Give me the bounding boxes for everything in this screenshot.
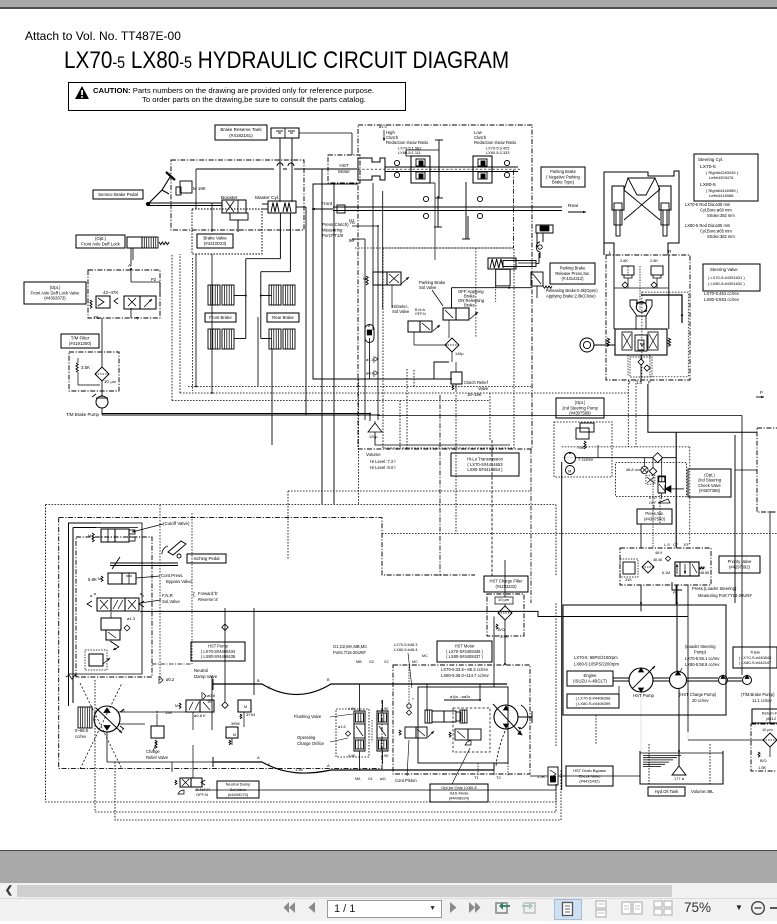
svg-text:Master Cyl.: Master Cyl.: [255, 195, 279, 201]
port labels T LS P: [628, 380, 651, 385]
wire: brake pump output: [102, 408, 380, 415]
wire: H1 port line: [350, 220, 379, 420]
svg-text:10: 10: [104, 379, 109, 384]
label: B N=b OFF:N: [415, 308, 426, 316]
node: H1: [349, 218, 355, 223]
label: Priority Valve (#4297692): [719, 556, 760, 573]
svg-text:L.S: L.S: [664, 542, 670, 547]
label: HST Pump: [633, 693, 655, 698]
valve: charge relief 15K: [151, 710, 172, 748]
toolbar: next view icon (disabled): [520, 899, 538, 921]
pump: triple gear pump tail: [743, 675, 752, 685]
svg-text:Cont.Press.: Cont.Press.: [161, 573, 183, 578]
svg-text:(#4409270): (#4409270): [228, 792, 249, 797]
valve: S&S mode spool: [449, 729, 481, 745]
bus: dotted right verticals: [649, 744, 710, 784]
toolbar: zoom dropdown arrow: [735, 903, 743, 912]
svg-text:b: b: [142, 593, 144, 598]
svg-text:177 ø: 177 ø: [674, 776, 685, 781]
svg-text:Hyd.Oil Tank: Hyd.Oil Tank: [655, 789, 680, 794]
port: P2: [151, 277, 157, 282]
svg-text:6.1M: 6.1M: [662, 571, 670, 575]
svg-text:{: {: [193, 592, 195, 598]
label: LX80-5 rod specs: [685, 223, 735, 239]
label: Press.Sw. (#4307590): [637, 509, 672, 524]
valve: servo feedback: [110, 641, 119, 650]
label: Service Brake Pedal: [93, 190, 143, 199]
bus: dash-dot vertical x531: [530, 449, 532, 603]
svg-text:HST: HST: [339, 163, 348, 168]
wire: hose taps into motor: [427, 684, 480, 711]
valve: booster: [222, 200, 248, 220]
viewer top gray bar: [0, 0, 777, 9]
container: T/M filter (dash-dot): [69, 352, 119, 391]
svg-text:(#4307590): (#4307590): [644, 516, 666, 521]
valve: hi-selec sol valve: [408, 321, 440, 345]
valve: parking brake sol valve: [443, 308, 478, 332]
svg-text:10 µm: 10 µm: [498, 597, 510, 602]
container: 2nd check valve (dotted): [616, 463, 687, 497]
svg-text:70K: 70K: [577, 445, 584, 450]
wire: pedal push rod: [148, 203, 222, 206]
svg-text:B: B: [327, 677, 330, 682]
svg-text:LX70-5: 88PS/2100rpm: LX70-5: 88PS/2100rpm: [574, 655, 618, 660]
label: Neutral Damp Sol.Valve (#4409270): [217, 781, 259, 798]
wire: pump internal verticals: [152, 505, 254, 730]
label: (Opt.) 2nd Steering Check Valve (#4307368): [688, 469, 731, 497]
valve: cont press bypass: [98, 573, 136, 584]
mech: inching pedal: [162, 541, 186, 558]
svg-text:Cyl,Bore:ø60 mm: Cyl,Bore:ø60 mm: [700, 208, 732, 213]
svg-text:Measuring: Measuring: [322, 227, 343, 232]
brake: front left pack: [208, 285, 234, 305]
tank: fluid level hatch: [643, 756, 681, 767]
wire: brake vertical bus 1: [296, 207, 306, 413]
wire: P line to right box: [735, 435, 757, 603]
bus: dotted vertical x192: [192, 258, 194, 391]
svg-text:P: P: [673, 590, 676, 595]
label: LX70-5 rod specs: [685, 202, 735, 218]
pump: charge pump hatch block: [78, 707, 92, 728]
svg-text:LX70-5:33.5~ 86.3 cc/rev: LX70-5:33.5~ 86.3 cc/rev: [441, 667, 489, 672]
container: HST motor inner housing: [418, 687, 508, 763]
svg-text:OFF:N: OFF:N: [415, 312, 426, 316]
svg-text:Sol.Valve: Sol.Valve: [419, 285, 437, 290]
container: HST motor (dash-dot): [393, 665, 530, 774]
container: HST system (dotted outer): [46, 505, 557, 803]
svg-text:(#4210023): (#4210023): [204, 241, 227, 246]
svg-text:(#4253232): (#4253232): [496, 584, 518, 589]
label: T/M Brake Pump: [66, 412, 99, 417]
svg-text:LX80-5 Rod Dia:ø35 mm: LX80-5 Rod Dia:ø35 mm: [685, 223, 731, 228]
label: orifice ø1.0: [379, 124, 388, 141]
svg-text:T: T: [136, 316, 139, 321]
svg-text:P1: P1: [94, 315, 100, 320]
label: Releasing/Applying brake: [546, 288, 598, 298]
wire: steering valve drains: [628, 355, 650, 382]
svg-text:ø0.8: ø0.8: [207, 693, 216, 698]
valve: pump drain box: [85, 650, 110, 670]
label: (Cutoff Valve): [132, 521, 190, 533]
wire: TM brake pump long line: [102, 414, 370, 422]
wire: reserve tank to brake valve: [280, 138, 292, 202]
label: Rear Brake: [267, 313, 299, 322]
node: A: [128, 263, 132, 270]
scrollbar zone: [0, 883, 777, 921]
svg-text:M: M: [244, 705, 247, 709]
wire: parking brake pipe: [518, 262, 536, 264]
svg-text:1.5K: 1.5K: [758, 765, 767, 770]
svg-text:(#4307368): (#4307368): [699, 488, 721, 493]
valve: neutral damp mid: [226, 721, 240, 745]
svg-text:ø: ø: [368, 324, 370, 328]
label: Cont.Piston: [395, 740, 417, 783]
wire: suction to tank: [641, 689, 679, 766]
svg-text:Brake Type): Brake Type): [552, 180, 575, 185]
label: (Opt.) Front Axle Deff Lock: [76, 235, 125, 248]
svg-text:Reverse:'a': Reverse:'a': [198, 597, 218, 602]
wire: press sw link: [654, 492, 660, 523]
svg-text:T2: T2: [496, 775, 501, 780]
header note: [25, 29, 181, 43]
label: 5.8K: [88, 577, 97, 582]
scrollbar thumb: [17, 885, 672, 897]
wire: L0 port line: [350, 237, 365, 420]
label: Steering Valve part numbers: [703, 264, 760, 291]
wire: reserve tank breather: [299, 133, 352, 155]
bus: dotted return line C: [172, 401, 489, 448]
svg-text:Volume: Volume: [366, 452, 381, 457]
gear: countershaft line: [434, 196, 468, 239]
brake: rear left pack: [269, 285, 295, 305]
label: Low Clutch Reduction Gear Ratio: [474, 130, 517, 155]
svg-text:P: P: [760, 390, 763, 395]
label: (Opt.) Front Axle Deff Lock Valve (#4302673): [24, 282, 86, 304]
svg-text:G1: G1: [368, 777, 373, 781]
svg-text:Inching Pedal: Inching Pedal: [193, 556, 219, 561]
svg-text:LX70-5:56.1 cc/rev: LX70-5:56.1 cc/rev: [685, 656, 720, 661]
label: High Clutch Reduction Gear Ratio: [386, 130, 429, 155]
svg-text:Stroke:382 mm: Stroke:382 mm: [707, 234, 735, 239]
svg-text:(#4415432): (#4415432): [579, 778, 600, 783]
cylinder: servo piston: [101, 612, 121, 640]
svg-text:( LX80-5:#4391632 ): ( LX80-5:#4391632 ): [708, 281, 745, 286]
container: Hi-Lo transmission (dash-dot): [358, 125, 532, 449]
pump: gerotor metering unit: [630, 300, 652, 316]
pump: HST variable pump: [94, 706, 125, 733]
svg-text:1.5K: 1.5K: [295, 767, 304, 772]
svg-text:4.9K: 4.9K: [348, 707, 356, 711]
svg-text:Press.(Loader Steering): Press.(Loader Steering): [692, 586, 737, 591]
label: orifice ø1.6: [338, 725, 351, 736]
toolbar: continuous facing layout icon: [650, 899, 678, 923]
valve: clutch relief 16-18K: [451, 362, 489, 397]
wire: rear brake link: [260, 272, 291, 339]
svg-text:µm: µm: [111, 380, 116, 384]
svg-text:Front Axle Deff Lock: Front Axle Deff Lock: [81, 242, 120, 247]
svg-text:Relief Valve: Relief Valve: [146, 755, 169, 760]
label: HST Motor part numbers: [437, 641, 492, 662]
port: T1 T2: [474, 763, 501, 780]
port: R: [668, 249, 671, 254]
valve: neutral damp right: [238, 700, 256, 719]
svg-text:(Opt.): (Opt.): [95, 236, 107, 241]
label: orifice marks: [366, 356, 378, 377]
svg-text:B/O: B/O: [498, 628, 505, 632]
svg-text:LX80-5:1.111: LX80-5:1.111: [398, 150, 421, 155]
svg-text:LX80-5:553 cc/rev: LX80-5:553 cc/rev: [704, 297, 740, 302]
viewer bottom gray bar: [0, 850, 777, 884]
svg-text:T1: T1: [474, 775, 479, 780]
svg-text:Volume:49L: Volume:49L: [691, 789, 714, 794]
mech: steering cross linkage: [624, 178, 660, 220]
svg-text:Rear Brake: Rear Brake: [272, 315, 294, 320]
svg-text:A: A: [327, 763, 330, 768]
shaft: front output flange: [337, 205, 358, 213]
valve: MC check: [406, 664, 414, 715]
svg-text:Rear: Rear: [568, 203, 579, 209]
strainer: transmission sump: [368, 423, 382, 439]
label: T/M Filter (#4191300): [61, 334, 99, 348]
svg-text:3.5K: 3.5K: [81, 365, 90, 370]
filter: T/M suction filter: [95, 367, 116, 384]
bus: dotted horizontal y533: [382, 533, 777, 535]
svg-text:LS: LS: [637, 380, 642, 385]
valve: 2nd pump relief 70K: [576, 423, 594, 450]
wire: charge pump lines: [107, 711, 213, 762]
label: Hi-Lo Transmission part numbers: [451, 453, 519, 476]
svg-text:MC: MC: [422, 654, 428, 658]
svg-text:149µ: 149µ: [455, 352, 464, 356]
label: Flushing Valve: [294, 714, 353, 719]
svg-text:M: M: [88, 534, 91, 538]
svg-text:42~47K: 42~47K: [103, 290, 118, 295]
svg-text:T/M Filter: T/M Filter: [71, 336, 90, 341]
label: 42~47K: [103, 290, 118, 295]
svg-text:Charge Orifice: Charge Orifice: [297, 741, 325, 746]
filter: check diamond on line: [653, 453, 663, 463]
container: bottom dotted box outer: [95, 505, 556, 813]
svg-text:2.8K: 2.8K: [650, 258, 658, 263]
toolbar: single page layout (selected): [554, 899, 582, 920]
cylinder: parking brake release: [488, 253, 539, 269]
svg-text:L0: L0: [350, 237, 355, 242]
svg-text:Releasing Brake:0.5k(Open): Releasing Brake:0.5k(Open): [546, 288, 598, 293]
svg-text:( LX80-S#4408437 ): ( LX80-S#4408437 ): [446, 654, 484, 659]
svg-text:M: M: [98, 577, 101, 581]
svg-text:MA: MA: [355, 777, 361, 781]
caution box: [68, 82, 406, 112]
gear: high gear mesh line: [435, 140, 443, 198]
toolbar: next page button: [448, 899, 460, 921]
svg-text:(#412: (#412: [766, 716, 777, 721]
svg-text:(#4182161): (#4182161): [229, 133, 253, 138]
node junction dots: [195, 386, 680, 752]
svg-text:(Opt.): (Opt.): [575, 400, 586, 405]
svg-text:(Loader Steering: (Loader Steering: [685, 644, 716, 649]
valve: flushing spool right: [377, 707, 389, 758]
svg-text:Sol,Valve: Sol,Valve: [162, 599, 180, 604]
label: Charge Relief Valve: [146, 742, 169, 760]
label: Press Loader Steering: [692, 586, 752, 598]
svg-text:R: R: [668, 249, 671, 254]
svg-text:48.9: 48.9: [655, 551, 662, 555]
svg-text:×: ×: [412, 697, 414, 701]
wire: pump work lines vertical pair: [69, 523, 102, 706]
svg-text:Steering Cyl.: Steering Cyl.: [698, 157, 723, 162]
toolbar: zoom out button: [750, 900, 767, 922]
toolbar: zoom slider start: [770, 907, 777, 909]
svg-text:P: P: [648, 380, 651, 385]
label: Opt.for Only LX80-5 S&S Mode (#4408924): [430, 748, 488, 802]
caution text: [93, 86, 374, 105]
svg-text:LX80-5:105PS/2200rpm: LX80-5:105PS/2200rpm: [574, 662, 619, 667]
label: HST Motor (pipe ref): [328, 155, 360, 183]
svg-text:M: M: [363, 277, 366, 281]
svg-text:5.8K: 5.8K: [88, 577, 97, 582]
label: 0~69.8 cc/rev: [75, 728, 89, 739]
svg-text:ø1.6: ø1.6: [338, 725, 346, 729]
svg-text:Port:PT1/8: Port:PT1/8: [322, 233, 344, 238]
valve: motor spool chain: [425, 695, 481, 723]
svg-text:Cyl,Bore:ø65 mm: Cyl,Bore:ø65 mm: [700, 229, 732, 234]
toolbar: zoom percent: [684, 900, 711, 915]
hose: HST loop top: [213, 677, 507, 695]
svg-text:Brake Reserve Tank: Brake Reserve Tank: [220, 127, 262, 132]
svg-text:EF: EF: [684, 542, 690, 547]
label: Front Brake: [205, 313, 236, 322]
wire: filter to pump: [101, 318, 103, 396]
wire: HST supply verticals: [322, 169, 334, 504]
container: brake valve assembly (dash-dot): [171, 160, 304, 230]
svg-text:Operating: Operating: [297, 735, 316, 740]
svg-text:ø1.3: ø1.3: [127, 616, 136, 621]
filter: clutch oil filter: [445, 338, 464, 356]
label: Operating Charge Orifice: [297, 735, 348, 746]
svg-text:4.9K: 4.9K: [348, 754, 356, 758]
container: pump servo housing solid: [69, 523, 143, 674]
pump: 2nd steering pump: [565, 452, 594, 475]
label: LX70-5 LX80-5 hose refs: [394, 642, 428, 688]
wire: motor drain to check: [508, 763, 640, 776]
wire: motor drain dashed curve: [496, 731, 505, 767]
svg-text:48.85: 48.85: [700, 571, 709, 575]
wire: front brake link: [234, 259, 280, 339]
svg-text:HST Pump: HST Pump: [633, 693, 655, 698]
label: Rear direction: [568, 203, 586, 213]
svg-text:ø0.2: ø0.2: [166, 677, 175, 682]
bus: dotted vertical x358: [358, 379, 360, 505]
valve: parking release check: [531, 272, 552, 298]
valve: orifice circle-X: [641, 466, 657, 475]
container: engine room box: [563, 605, 726, 715]
svg-text:46.8: 46.8: [626, 467, 634, 472]
svg-text:Reduction Geav Ratio: Reduction Geav Ratio: [386, 140, 429, 145]
label: orifice ø1.3: [124, 616, 136, 631]
valve: flushing spool left: [348, 707, 365, 758]
svg-text:B/O: B/O: [760, 759, 767, 763]
svg-text:Pump): Pump): [694, 650, 707, 655]
valve: hi-lo shift spool: [363, 272, 409, 285]
svg-text:Motor: Motor: [338, 169, 350, 174]
svg-text:Front Brake: Front Brake: [209, 315, 232, 320]
svg-text:a: a: [90, 593, 93, 598]
container: pump control (dash-dot inner): [66, 537, 152, 679]
tank: hydraulic oil tank: [640, 751, 723, 784]
cylinder: master cylinder: [262, 201, 296, 213]
label: Engine ISUZU: [567, 671, 613, 686]
svg-text:Cont.Piston: Cont.Piston: [395, 778, 417, 783]
label: Brake Reserve Tank (#4182161): [215, 125, 267, 140]
wire: EF to engine room: [687, 585, 689, 732]
shaft: output shaft: [333, 207, 562, 211]
accumulator: right 2.8K: [650, 258, 663, 288]
wire: sump line: [375, 421, 510, 445]
port: L: [609, 250, 612, 255]
svg-text:Ports:7/16-20UNF: Ports:7/16-20UNF: [333, 650, 366, 655]
svg-text:Applying Brake:2.8k(Close): Applying Brake:2.8k(Close): [546, 293, 596, 298]
svg-text:3Y54: 3Y54: [246, 712, 256, 717]
svg-text:20 cc/rev: 20 cc/rev: [692, 698, 710, 703]
clutch: high clutch pack: [406, 150, 435, 183]
mech: steering wheel: [580, 338, 615, 352]
svg-text:LX80-5:#48.4: LX80-5:#48.4: [394, 647, 418, 652]
label: Parking Brake Release Press.Sw. (#4314312): [550, 263, 595, 284]
svg-text:G2: G2: [369, 660, 374, 664]
svg-text:LX70-5:461 cc/rev: LX70-5:461 cc/rev: [704, 291, 740, 296]
pump: T/M brake pump: [92, 394, 108, 408]
svg-text:LX80-5:38.0~114.7 cc/rev: LX80-5:38.0~114.7 cc/rev: [441, 673, 490, 678]
svg-text:ø41: ø41: [380, 777, 386, 781]
shaft: main drive shaft: [358, 167, 520, 172]
port: T: [136, 316, 139, 321]
valve: cont piston spool: [399, 727, 434, 738]
wire: charge suction main line: [140, 611, 688, 616]
wire: steering long drop x641 x677: [641, 524, 676, 611]
svg-text:Service Brake Pedal: Service Brake Pedal: [98, 192, 138, 197]
motor: HST motor rotary group: [493, 704, 532, 735]
container: charge filter (dash-dot): [487, 594, 524, 636]
container: 2nd steering pump (dotted): [554, 422, 612, 477]
svg-text:MB: MB: [356, 660, 362, 664]
svg-text:( LX80-S:#4408399: ( LX80-S:#4408399: [576, 701, 611, 706]
svg-text:Neutral: Neutral: [194, 668, 208, 673]
svg-text:Front Axle Deff Lock Valve: Front Axle Deff Lock Valve: [31, 290, 81, 295]
svg-text:2nd Steering Pump: 2nd Steering Pump: [562, 405, 599, 410]
svg-text:(#4302673): (#4302673): [44, 296, 66, 301]
wire: T LS dotted drops: [562, 380, 690, 544]
svg-text:3.5K: 3.5K: [500, 634, 509, 639]
label: Neutral Damp Valve: [194, 668, 218, 679]
svg-text:Bypass Valve: Bypass Valve: [166, 579, 192, 584]
svg-text:R: R: [268, 686, 271, 690]
wire: check valve internal drops: [645, 458, 685, 499]
wire: return line: [688, 603, 763, 740]
svg-text:cc/rev: cc/rev: [75, 734, 87, 739]
cylinder: left steering: [612, 186, 624, 236]
wire: brake circuit top run: [196, 163, 357, 169]
svg-text:(Cutoff Valve): (Cutoff Valve): [163, 521, 190, 526]
svg-text:48.46: 48.46: [653, 558, 662, 562]
svg-text:OFF:N: OFF:N: [196, 792, 208, 797]
label: orifice ø0.2: [159, 676, 175, 684]
container: steering drain dotted: [630, 357, 652, 377]
container: bottom dotted box inner: [115, 762, 561, 820]
svg-text:( LX80-S:#442447: ( LX80-S:#442447: [739, 660, 772, 665]
bus: dashed vertical x440: [439, 395, 441, 576]
cylinder: right steering: [659, 186, 671, 236]
svg-text:Press(Clutch): Press(Clutch): [322, 222, 349, 227]
